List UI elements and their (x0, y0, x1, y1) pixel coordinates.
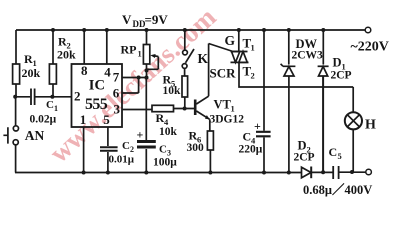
svg-text:2: 2 (251, 71, 255, 81)
node D1 bottom (321, 170, 325, 174)
wire left rail upper (15, 30, 17, 64)
svg-text:0.68μ／400V: 0.68μ／400V (303, 182, 372, 197)
pin 5 label (103, 112, 110, 127)
wire pin 1 to ground (83, 127, 85, 173)
switch K (182, 49, 194, 68)
label R4 10k (156, 111, 178, 138)
wire R4 to base (174, 108, 195, 110)
svg-text:1: 1 (231, 104, 235, 114)
node left C1 junction (13, 95, 17, 99)
svg-text:1: 1 (80, 112, 87, 127)
label DW 2CW3 (292, 37, 324, 62)
label ~220V (351, 40, 389, 55)
node C3 bottom (144, 171, 148, 175)
node SCR top (237, 28, 241, 32)
wire top rail VDD (16, 29, 365, 31)
label K (198, 51, 209, 66)
label VDD=9V (122, 12, 168, 29)
pin 7 label (113, 70, 120, 85)
node DW bottom (287, 171, 291, 175)
wire R5 to base node (184, 97, 186, 109)
pin 2 label (74, 88, 81, 103)
wire R6 to ground (209, 150, 211, 173)
diode D1 (318, 30, 329, 172)
node pin8 top (82, 28, 86, 32)
wire left rail mid (15, 84, 17, 126)
node lamp bottom (350, 170, 354, 174)
svg-text:7: 7 (113, 70, 120, 85)
node RP1 wiper (145, 69, 149, 73)
label T1 (243, 36, 255, 53)
diode D2 (302, 167, 312, 179)
svg-text:10k: 10k (163, 85, 182, 97)
svg-text:IC: IC (89, 78, 105, 94)
label IC 555 (85, 78, 108, 113)
svg-text:0.01μ: 0.01μ (109, 154, 135, 166)
pin 1 label (80, 112, 87, 127)
node C4 top (262, 28, 266, 32)
svg-text:20k: 20k (22, 66, 41, 80)
node R6 bottom (208, 171, 212, 175)
svg-text:AN: AN (25, 128, 45, 143)
wire gate diagonal (209, 44, 233, 52)
label G (225, 33, 236, 48)
label C3 plus (137, 128, 144, 142)
wire C4 branch (263, 30, 265, 173)
label C4 plus (254, 119, 261, 133)
capacitor C5 (333, 166, 338, 179)
label D1 2CP (331, 56, 352, 82)
label 0.68u/400V (303, 182, 372, 197)
node C2 bottom (106, 171, 110, 175)
svg-text:3DG12: 3DG12 (210, 114, 245, 126)
label RP1 (121, 43, 142, 59)
node RP1 top (145, 28, 149, 32)
label VT1 3DG12 (210, 98, 245, 126)
terminal ~220V top (365, 27, 371, 33)
label SCR (210, 66, 237, 81)
wire pin 8 to rail (83, 30, 85, 64)
svg-text:G: G (225, 33, 236, 48)
svg-text:4: 4 (104, 65, 111, 80)
svg-text:~220V: ~220V (351, 40, 389, 55)
wire pin 4 to rail (106, 30, 108, 64)
svg-text:=9V: =9V (145, 12, 169, 27)
node C4 bottom (262, 171, 266, 175)
svg-text:C: C (122, 140, 130, 152)
pin 6 label (113, 85, 120, 100)
svg-text:RP: RP (121, 43, 137, 57)
svg-text:D: D (333, 56, 342, 70)
wire pin 3 row to R4 (122, 109, 152, 111)
resistor R4 (152, 105, 174, 111)
label C3 100u (153, 144, 177, 169)
wire K branch (184, 30, 186, 50)
svg-text:6: 6 (113, 85, 120, 100)
resistor R2 (49, 64, 56, 84)
resistor R5 (182, 76, 188, 97)
wire pin 7 row (122, 77, 147, 79)
wire C3 branch (145, 78, 147, 173)
label R2 20k (57, 35, 76, 62)
svg-text:C: C (46, 99, 54, 111)
wire pin 6 row (122, 78, 139, 94)
wire bottom rail (15, 171, 366, 173)
svg-text:5: 5 (338, 151, 342, 161)
svg-text:C: C (243, 130, 252, 144)
label C1 0.02u (30, 99, 59, 126)
svg-text:VT: VT (214, 98, 232, 112)
wire K to R5 (184, 68, 186, 76)
label C2 0.01u (109, 140, 135, 166)
capacitor C2 (100, 147, 118, 151)
svg-text:8: 8 (81, 63, 88, 78)
wire left rail lower (15, 145, 17, 173)
svg-text:D: D (298, 139, 307, 153)
svg-text:V: V (122, 12, 132, 27)
transistor VT1 (195, 96, 209, 119)
node DW top (287, 28, 291, 32)
svg-text:1: 1 (54, 104, 58, 113)
svg-text:0.02μ: 0.02μ (30, 114, 57, 126)
svg-text:220μ: 220μ (239, 144, 263, 156)
node pin4 top (105, 28, 109, 32)
node pin7 b (145, 76, 149, 80)
svg-text:20k: 20k (57, 48, 76, 62)
wire pin2 row (15, 96, 71, 98)
wire collector to gate (208, 44, 210, 97)
svg-text:2CP: 2CP (331, 70, 352, 82)
label D2 2CP (294, 139, 315, 164)
wire emitter to R6 (209, 119, 211, 131)
svg-text:1: 1 (138, 49, 142, 59)
svg-text:10k: 10k (159, 126, 178, 138)
label R1 20k (22, 52, 41, 80)
capacitor C1 (31, 89, 35, 106)
node D1 top (321, 28, 325, 32)
svg-text:H: H (365, 118, 376, 133)
svg-text:2CP: 2CP (294, 152, 315, 164)
svg-text:3: 3 (114, 102, 121, 117)
potentiometer RP1 (143, 30, 158, 78)
IC 555 box U1 (72, 64, 123, 127)
label AN (25, 128, 45, 143)
svg-text:555: 555 (85, 96, 108, 113)
switch AN button (3, 126, 18, 145)
wire pin 5 to C2 (107, 127, 109, 146)
svg-text:K: K (198, 51, 209, 66)
svg-text:+: + (254, 119, 261, 133)
node K top (183, 28, 187, 32)
svg-text:300: 300 (187, 142, 205, 154)
lamp H (345, 87, 362, 172)
label R6 300 (187, 129, 205, 155)
triac SCR (231, 30, 354, 87)
pin 8 label (81, 63, 88, 78)
svg-text:5: 5 (103, 112, 110, 127)
wire R2 branch (52, 30, 54, 97)
wire C2 to ground (107, 152, 109, 173)
label H (365, 118, 376, 133)
label R5 10k (163, 73, 182, 98)
label C4 220u (239, 130, 263, 156)
capacitor C3 (137, 142, 156, 148)
svg-text:1: 1 (251, 43, 255, 53)
svg-text:SCR: SCR (210, 66, 237, 81)
node pin7 a (137, 76, 141, 80)
pin 4 label (104, 65, 111, 80)
zener DW (281, 30, 296, 173)
pin 3 label (114, 102, 121, 117)
node base junction (183, 107, 187, 111)
svg-text:C: C (159, 144, 167, 156)
svg-text:2CW3: 2CW3 (292, 50, 324, 62)
terminal bottom right (366, 169, 372, 175)
node R2 top (51, 28, 55, 32)
svg-text:100μ: 100μ (153, 157, 177, 169)
label C5 (329, 145, 342, 161)
capacitor C4 (256, 132, 271, 137)
node pin1 bottom (82, 171, 86, 175)
resistor R1 (13, 64, 20, 84)
resistor R6 (207, 131, 213, 150)
node R2 bottom (50, 95, 54, 99)
svg-text:C: C (329, 145, 338, 159)
svg-text:2: 2 (74, 88, 81, 103)
label T2 (243, 64, 255, 81)
svg-text:+: + (137, 128, 144, 142)
